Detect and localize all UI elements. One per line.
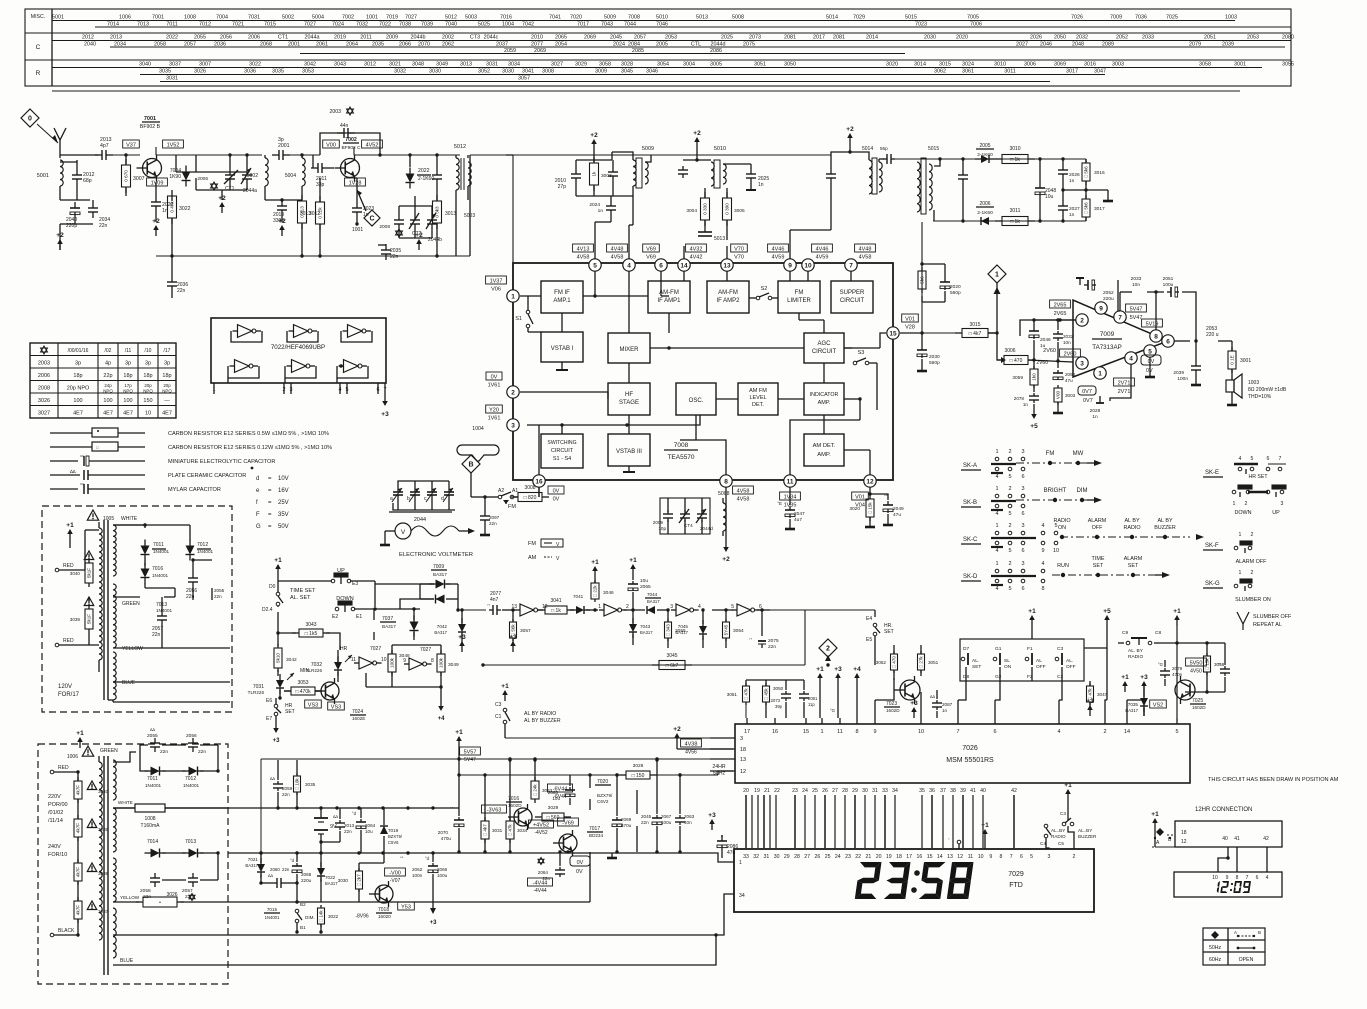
svg-text:4E7: 4E7 xyxy=(103,411,113,417)
svg-text:7: 7 xyxy=(1246,875,1249,881)
wire fm limiter feed 9 xyxy=(789,230,791,259)
svg-text:3008: 3008 xyxy=(542,69,554,75)
svg-text:1V28: 1V28 xyxy=(349,181,362,187)
amp pin 3 xyxy=(1076,357,1088,369)
svg-text:5V47: 5V47 xyxy=(464,757,476,763)
capacitor 2052 220u supply pin9 xyxy=(1084,284,1088,286)
svg-text:4: 4 xyxy=(995,511,998,517)
svg-text:4k7F: 4k7F xyxy=(76,785,81,795)
svg-text:5009: 5009 xyxy=(642,146,654,152)
capacitor 2051 100u xyxy=(1167,291,1171,293)
svg-text:0 3k3: 0 3k3 xyxy=(435,206,440,218)
svg-text:2013: 2013 xyxy=(344,823,355,828)
svg-text:/01/02: /01/02 xyxy=(48,810,63,816)
svg-text:V: V xyxy=(401,529,406,536)
svg-text:100: 100 xyxy=(123,398,132,404)
wire C8 row extension xyxy=(1160,642,1225,644)
svg-text:5010: 5010 xyxy=(656,15,668,21)
svg-text:100k: 100k xyxy=(390,657,395,668)
svg-text:IF AMP2: IF AMP2 xyxy=(716,298,740,304)
svg-text:4E7: 4E7 xyxy=(123,411,133,417)
svg-text:2051: 2051 xyxy=(1163,276,1174,282)
svg-text:3047: 3047 xyxy=(1094,69,1106,75)
electronic voltmeter symbol xyxy=(395,523,411,539)
rail 759 pin13 xyxy=(261,758,733,760)
wire pin11 inside xyxy=(790,420,860,475)
svg-text:2056: 2056 xyxy=(186,733,197,739)
svg-text:3013: 3013 xyxy=(300,211,311,217)
wire blue bottom long xyxy=(228,935,716,965)
svg-text:2025: 2025 xyxy=(721,35,733,41)
svg-text:7043: 7043 xyxy=(640,624,651,629)
svg-text:31: 31 xyxy=(764,854,770,860)
svg-text:B: B xyxy=(468,462,473,469)
svg-text:CIRCUIT: CIRCUIT xyxy=(840,298,865,304)
svg-text:2065: 2065 xyxy=(640,584,651,590)
svg-text:100k: 100k xyxy=(439,657,444,668)
svg-text:3006: 3006 xyxy=(1004,348,1015,354)
svg-text:6: 6 xyxy=(993,729,996,735)
svg-text:+4: +4 xyxy=(853,666,861,673)
svg-text:-8V96: -8V96 xyxy=(355,914,369,920)
svg-text:7014: 7014 xyxy=(107,22,119,28)
svg-text:5004: 5004 xyxy=(285,173,296,179)
svg-text:2060: 2060 xyxy=(270,867,280,872)
svg-text:2052: 2052 xyxy=(1103,290,1114,296)
svg-text:40: 40 xyxy=(1222,836,1228,842)
svg-text:2039: 2039 xyxy=(1173,370,1184,376)
svg-text:3012: 3012 xyxy=(364,62,376,68)
svg-text:□ 15k: □ 15k xyxy=(1205,658,1210,670)
resistor 3057v xyxy=(510,622,517,638)
svg-text:7: 7 xyxy=(1010,854,1013,860)
ground +2 antenna xyxy=(59,243,61,250)
svg-text:2046: 2046 xyxy=(1040,42,1052,48)
block AGC CIRCUIT xyxy=(804,333,844,363)
svg-text:FM: FM xyxy=(1046,451,1055,457)
svg-text:C3: C3 xyxy=(1060,811,1066,816)
svg-text:7031: 7031 xyxy=(248,15,260,21)
svg-text:3047: 3047 xyxy=(1097,692,1108,697)
svg-text:22n: 22n xyxy=(282,867,290,872)
voltage box 4V52 xyxy=(362,140,383,148)
svg-text:3040: 3040 xyxy=(98,789,109,794)
svg-text:10: 10 xyxy=(1053,548,1059,554)
wire 5010 net xyxy=(683,159,711,161)
supply 5V57 rail xyxy=(458,740,460,747)
svg-text:7019: 7019 xyxy=(388,828,399,833)
svg-text:3054: 3054 xyxy=(733,628,744,634)
svg-text:SLUMBER OFF: SLUMBER OFF xyxy=(1253,614,1292,620)
diode 7016 1N4001 xyxy=(144,560,146,566)
svg-text:5014: 5014 xyxy=(862,146,873,152)
resistor 3010 xyxy=(1002,155,1028,164)
svg-text:0V: 0V xyxy=(1148,359,1155,365)
svg-text:3045: 3045 xyxy=(621,69,633,75)
block HF STAGE xyxy=(608,383,650,415)
svg-text:MYLAR CAPACITOR: MYLAR CAPACITOR xyxy=(168,487,221,493)
wire 7002 collector rail xyxy=(353,147,355,155)
varicap 2006 xyxy=(195,155,197,172)
svg-text:4: 4 xyxy=(1041,523,1044,529)
svg-text:9: 9 xyxy=(403,658,406,664)
svg-text:2039: 2039 xyxy=(1222,42,1234,48)
resistor 3032b xyxy=(318,908,325,924)
diode 7012 1N4001 xyxy=(189,525,191,540)
rail 808 white xyxy=(228,807,459,809)
svg-text:2: 2 xyxy=(1008,561,1011,567)
svg-text:2032: 2032 xyxy=(1063,334,1074,339)
svg-text:1: 1 xyxy=(995,523,998,529)
svg-text:4: 4 xyxy=(995,586,998,592)
svg-text:3031: 3031 xyxy=(492,828,503,833)
amp pin 8 xyxy=(1150,330,1162,342)
svg-text:BA317: BA317 xyxy=(675,630,688,635)
svg-text:42: 42 xyxy=(1011,788,1017,794)
svg-text:3005: 3005 xyxy=(710,62,722,68)
svg-text:+1: +1 xyxy=(501,683,509,690)
wire top rail right xyxy=(506,154,513,156)
switch SK-E row2 xyxy=(1238,485,1252,489)
svg-text:4V46: 4V46 xyxy=(772,247,785,253)
svg-text:18p: 18p xyxy=(73,373,82,379)
svg-text:2027: 2027 xyxy=(1069,206,1080,212)
svg-text:5008: 5008 xyxy=(718,491,730,497)
svg-text:1003: 1003 xyxy=(1225,15,1237,21)
svg-text:G1: G1 xyxy=(995,646,1002,652)
svg-text:STAGE: STAGE xyxy=(619,400,639,406)
svg-text:7012: 7012 xyxy=(199,22,211,28)
svg-text:25V: 25V xyxy=(278,500,289,506)
block MIXER xyxy=(608,333,650,363)
svg-text:V28: V28 xyxy=(905,325,915,331)
IC 7022 HEF4069UBP outline xyxy=(211,318,386,383)
svg-text:100: 100 xyxy=(73,398,82,404)
capacitor 2067 100u xyxy=(656,815,658,818)
svg-text:2009: 2009 xyxy=(386,35,398,41)
capacitor top right of 7002 xyxy=(436,169,438,175)
svg-text:2073: 2073 xyxy=(749,35,761,41)
svg-text:18p: 18p xyxy=(143,373,152,379)
svg-text:□ 14k: □ 14k xyxy=(319,910,324,922)
svg-text:TIME SET: TIME SET xyxy=(290,588,316,594)
svg-text:3022: 3022 xyxy=(249,62,261,68)
svg-text:+2: +2 xyxy=(693,130,701,137)
svg-text:5Y45: 5Y45 xyxy=(724,624,729,635)
svg-text:/11: /11 xyxy=(125,348,132,354)
svg-text:2005: 2005 xyxy=(656,42,668,48)
svg-text:22p: 22p xyxy=(103,373,112,379)
dashed enclosure 220V supply xyxy=(38,744,228,984)
svg-text:3041: 3041 xyxy=(550,598,561,604)
primary RED terminals xyxy=(55,568,59,572)
svg-text:2045: 2045 xyxy=(641,814,652,819)
svg-text:35: 35 xyxy=(919,788,925,794)
svg-text:8: 8 xyxy=(724,478,728,485)
svg-text:1n: 1n xyxy=(942,708,948,713)
voltage box V37 xyxy=(123,140,140,148)
voltage box -3V63 xyxy=(482,805,507,813)
svg-text:2069: 2069 xyxy=(584,35,596,41)
svg-text:7011: 7011 xyxy=(153,542,164,548)
svg-text:ALARM: ALARM xyxy=(1088,518,1107,524)
voltage box V00 xyxy=(323,140,340,148)
svg-text:2010: 2010 xyxy=(531,35,543,41)
varicap 2044a xyxy=(246,169,248,175)
svg-text:2020: 2020 xyxy=(950,284,961,290)
svg-text:SET: SET xyxy=(1128,563,1139,569)
svg-text:BRIGHT: BRIGHT xyxy=(1044,488,1067,494)
resistor 3049 100k xyxy=(437,654,445,672)
resistor 3030b 2k7 xyxy=(356,871,363,889)
svg-text:7: 7 xyxy=(956,729,959,735)
svg-text:5008: 5008 xyxy=(732,15,744,21)
svg-text:□ 470: □ 470 xyxy=(1010,358,1023,364)
svg-text:OPEN: OPEN xyxy=(1239,957,1254,963)
svg-text:VS3: VS3 xyxy=(308,703,318,709)
svg-text:+1: +1 xyxy=(76,730,84,737)
svg-text:11p: 11p xyxy=(808,702,815,707)
svg-text:+2: +2 xyxy=(152,218,160,225)
svg-text:□ 45k: □ 45k xyxy=(764,688,769,700)
svg-text:2024: 2024 xyxy=(589,202,600,208)
svg-text:47u: 47u xyxy=(727,850,736,856)
coil 5004 xyxy=(302,158,305,186)
resistor 3006 470 xyxy=(1001,357,1006,363)
voltage box pin7 xyxy=(855,244,876,252)
svg-text:∆∆: ∆∆ xyxy=(270,776,275,781)
svg-text:3037: 3037 xyxy=(169,62,181,68)
svg-text:3027: 3027 xyxy=(551,62,563,68)
op-amp U7008 outline xyxy=(513,263,893,480)
svg-text:7025: 7025 xyxy=(1166,15,1178,21)
svg-text:SUPPER: SUPPER xyxy=(840,290,865,296)
svg-text:AM FM: AM FM xyxy=(749,388,767,394)
transformer 1005 secondary xyxy=(113,525,116,576)
wire varicap bottoms xyxy=(398,230,400,238)
svg-text:+1: +1 xyxy=(455,729,463,736)
svg-text:□ 820: □ 820 xyxy=(524,495,537,501)
svg-text:7027: 7027 xyxy=(370,646,381,652)
svg-text:27: 27 xyxy=(832,788,838,794)
capacitor 2024 1n xyxy=(610,201,612,206)
svg-text:3007: 3007 xyxy=(199,62,211,68)
svg-text:□ 1k: □ 1k xyxy=(551,608,561,614)
svg-text:5010: 5010 xyxy=(714,146,726,152)
svg-text:E7: E7 xyxy=(266,716,272,722)
svg-text:1N4001: 1N4001 xyxy=(183,783,200,788)
svg-text:16: 16 xyxy=(917,854,923,860)
svg-text:3: 3 xyxy=(1080,360,1084,367)
svg-text:BA317: BA317 xyxy=(640,630,653,635)
svg-text:22n: 22n xyxy=(768,644,776,650)
svg-text:ELECTRONIC VOLTMETER: ELECTRONIC VOLTMETER xyxy=(399,552,473,558)
block AM-FM IF AMP1 xyxy=(648,281,690,313)
svg-text:4V58: 4V58 xyxy=(859,255,872,261)
svg-text:BA317: BA317 xyxy=(382,624,396,629)
resistor 3008 820 xyxy=(518,493,542,502)
block AM-FM IF AMP2 xyxy=(707,281,749,313)
svg-text:-V69: -V69 xyxy=(562,821,574,827)
svg-text:12: 12 xyxy=(866,478,874,485)
voltage box pin14 xyxy=(686,244,707,252)
svg-text:28: 28 xyxy=(794,854,800,860)
svg-text:17: 17 xyxy=(906,854,912,860)
svg-text:10V: 10V xyxy=(278,476,289,482)
svg-text:+3: +3 xyxy=(381,411,389,418)
svg-text:33: 33 xyxy=(882,788,888,794)
supply +1 arrow box2 xyxy=(79,741,81,748)
svg-text:2073: 2073 xyxy=(771,698,781,703)
svg-text:3015: 3015 xyxy=(969,322,980,328)
wire yellow to regulator xyxy=(589,852,591,902)
svg-text:FM IF: FM IF xyxy=(554,290,570,296)
resistor 3034b xyxy=(506,821,514,839)
resistor 3051o xyxy=(743,686,750,702)
crystal 1001 xyxy=(356,218,358,224)
svg-text:18p: 18p xyxy=(162,373,171,379)
svg-text:C8: C8 xyxy=(1155,630,1161,636)
svg-text:240V: 240V xyxy=(48,844,61,850)
svg-text:6: 6 xyxy=(1021,511,1024,517)
svg-text:RADIO: RADIO xyxy=(1051,834,1066,839)
resistor 3039 vertical xyxy=(85,609,93,629)
svg-text:22: 22 xyxy=(774,788,780,794)
svg-text:2064: 2064 xyxy=(538,870,549,875)
diode 7038 BA317 xyxy=(410,622,419,631)
svg-text:2051: 2051 xyxy=(1204,35,1216,41)
display 7029 FTD outline xyxy=(734,849,1094,912)
svg-text:3015: 3015 xyxy=(939,62,951,68)
wire pin15 chain xyxy=(844,347,880,349)
svg-text:36: 36 xyxy=(929,788,935,794)
wire to 7001 base xyxy=(113,154,140,156)
svg-text:8: 8 xyxy=(855,729,858,735)
svg-text:0V7: 0V7 xyxy=(1083,398,1093,404)
capacitor 2050 47u xyxy=(1057,370,1059,373)
svg-text:3034: 3034 xyxy=(517,828,528,833)
svg-text:3057: 3057 xyxy=(518,76,530,82)
capacitor 2045 22n xyxy=(636,790,638,814)
svg-text:2V65: 2V65 xyxy=(1054,311,1067,317)
svg-text:3051: 3051 xyxy=(727,692,738,697)
svg-text:C: C xyxy=(369,216,374,223)
svg-text:16V: 16V xyxy=(278,488,289,494)
pin 2 xyxy=(507,386,519,398)
resistor 3026 with star xyxy=(143,897,177,907)
svg-text:7041: 7041 xyxy=(549,15,561,21)
svg-text:7035: 7035 xyxy=(1128,702,1139,707)
svg-text:+3: +3 xyxy=(273,738,281,744)
svg-text:10n: 10n xyxy=(1132,282,1140,288)
svg-text:50Hz: 50Hz xyxy=(1209,945,1222,951)
svg-text:7024: 7024 xyxy=(352,709,363,715)
svg-text:THD=10%: THD=10% xyxy=(1248,394,1272,400)
svg-text:7: 7 xyxy=(849,262,853,269)
svg-text:+5: +5 xyxy=(1103,608,1111,615)
svg-text:20: 20 xyxy=(743,788,749,794)
svg-text:2081: 2081 xyxy=(833,35,845,41)
wires top bridge box2 xyxy=(113,752,136,762)
svg-text:7020: 7020 xyxy=(597,779,608,785)
svg-text:3051: 3051 xyxy=(928,660,939,665)
svg-text:6: 6 xyxy=(1021,586,1024,592)
svg-text:E4: E4 xyxy=(866,616,872,622)
svg-text:3010: 3010 xyxy=(1009,146,1020,152)
svg-text:1n: 1n xyxy=(598,208,604,214)
svg-text:+3: +3 xyxy=(1086,698,1094,705)
transistor 7001 BF902 B xyxy=(143,159,162,178)
svg-text:2054: 2054 xyxy=(555,42,567,48)
svg-text:100n: 100n xyxy=(1177,376,1188,382)
capacitor next to 3003 xyxy=(612,166,614,172)
svg-text:AL..BY: AL..BY xyxy=(1078,828,1092,833)
svg-text:3004: 3004 xyxy=(683,62,695,68)
svg-text:0V7: 0V7 xyxy=(1082,389,1092,395)
transformer 1006 primary xyxy=(99,762,102,940)
svg-text:2053: 2053 xyxy=(665,35,677,41)
svg-text:2053: 2053 xyxy=(1247,35,1259,41)
voltage boxes amp right xyxy=(1126,304,1147,312)
legend carbon resistor 0.5W xyxy=(50,432,92,434)
svg-text:1N4001: 1N4001 xyxy=(145,783,162,788)
transistor 7018 16020 xyxy=(375,885,393,903)
svg-text:4V48: 4V48 xyxy=(611,247,624,253)
voltage box 1V28 xyxy=(345,178,366,186)
box 0V 7017 xyxy=(570,856,590,866)
svg-text:7021: 7021 xyxy=(248,857,259,862)
resistor 3011 xyxy=(1002,217,1028,226)
wire antenna to mixer xyxy=(60,154,98,156)
svg-text:4V52: 4V52 xyxy=(366,143,379,149)
svg-text:SK-C: SK-C xyxy=(963,537,978,543)
svg-text:220V: 220V xyxy=(48,794,61,800)
svg-text:2069: 2069 xyxy=(534,48,546,54)
svg-text:3026: 3026 xyxy=(38,398,50,404)
svg-text:°d: °d xyxy=(352,811,357,816)
wires IC to display xyxy=(745,795,747,848)
svg-text:□ 2k7: □ 2k7 xyxy=(357,874,362,886)
block SUPPER CIRCUIT xyxy=(831,281,873,313)
svg-text:2028: 2028 xyxy=(1090,408,1101,414)
resistor 3048 100k xyxy=(388,654,396,672)
svg-text:2089: 2089 xyxy=(1102,42,1114,48)
tuning gang 2044 xyxy=(397,486,399,492)
wire 7024 base xyxy=(315,690,321,692)
svg-text:+1: +1 xyxy=(591,559,599,566)
svg-text:7: 7 xyxy=(1279,456,1282,462)
svg-text:E3: E3 xyxy=(352,581,358,587)
svg-text:2057: 2057 xyxy=(182,888,193,894)
svg-text:2068: 2068 xyxy=(301,872,312,877)
inverter 7022b xyxy=(294,325,308,338)
flipflop loop wire xyxy=(366,686,441,688)
svg-text:1k: 1k xyxy=(592,171,597,177)
svg-text:□ 4k7: □ 4k7 xyxy=(483,824,488,836)
svg-text:3040: 3040 xyxy=(70,571,81,576)
svg-text:INDICATOR: INDICATOR xyxy=(810,392,839,398)
clock top pin stubs xyxy=(874,700,876,718)
svg-text:□ 24k: □ 24k xyxy=(533,784,538,796)
svg-text:22n: 22n xyxy=(282,792,290,797)
svg-text:3: 3 xyxy=(1048,854,1051,860)
svg-text:2: 2 xyxy=(1008,523,1011,529)
svg-text:4V58: 4V58 xyxy=(737,489,750,495)
svg-text:HR SET: HR SET xyxy=(1248,474,1268,480)
capacitor 2047 4u7 pin11 xyxy=(789,487,791,505)
svg-text:1: 1 xyxy=(1233,501,1236,507)
capacitor 2034 22n xyxy=(92,202,94,208)
